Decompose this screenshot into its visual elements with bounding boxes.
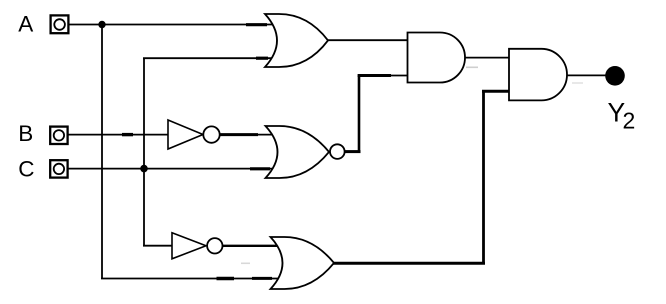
svg-text:2: 2 — [623, 108, 636, 134]
svg-text:B: B — [18, 121, 33, 146]
svg-text:C: C — [18, 156, 34, 181]
svg-text:A: A — [18, 12, 33, 37]
